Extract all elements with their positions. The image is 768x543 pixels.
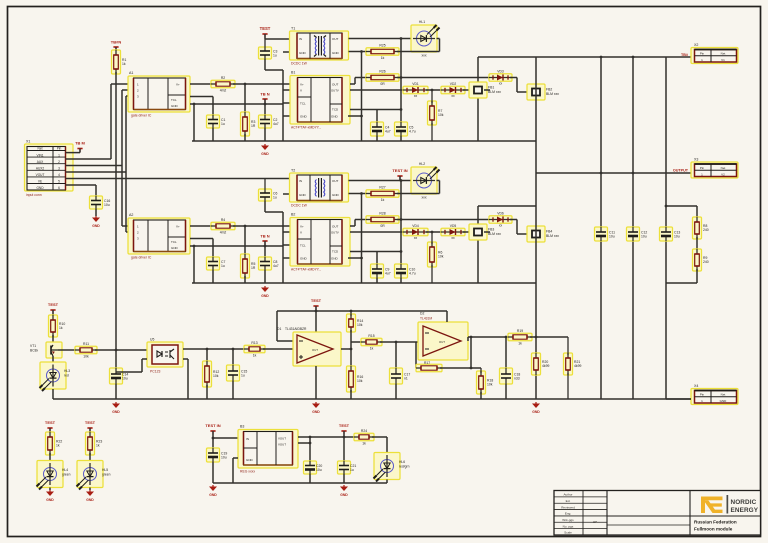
svg-text:TB#: TB# — [681, 53, 688, 57]
resistor R28 on OUT rail — [366, 212, 399, 228]
rail 206 ch2 — [478, 205, 536, 207]
wire C7 to rail — [212, 270, 214, 283]
svg-text:HL2: HL2 — [419, 162, 425, 166]
svg-text:Eng.: Eng. — [565, 512, 572, 516]
svg-text:OUT: OUT — [332, 83, 339, 87]
svg-text:1k: 1k — [122, 62, 126, 66]
svg-text:GND: GND — [332, 193, 340, 197]
junction x401 on OUT rail — [400, 76, 403, 79]
junction at R5 top — [244, 225, 247, 228]
svg-text:1R: 1R — [251, 266, 256, 270]
svg-text:Pin: Pin — [700, 393, 705, 397]
wire flag to rail — [343, 431, 345, 437]
capacitor C9 — [371, 264, 391, 278]
ground below bus at x316 — [312, 402, 320, 414]
svg-text:4m2: 4m2 — [220, 230, 227, 234]
resistor R14 vertical upper — [347, 314, 364, 332]
svg-text:R28: R28 — [379, 212, 385, 216]
svg-text:1R: 1R — [251, 124, 256, 128]
wire C21 drop — [343, 437, 345, 461]
svg-text:6: 6 — [58, 186, 60, 190]
resistor R21 vertical — [564, 353, 582, 375]
connector X1 input header — [25, 140, 74, 192]
svg-text:4k99: 4k99 — [542, 364, 549, 368]
svg-text:1k: 1k — [56, 444, 60, 448]
svg-text:OUT: OUT — [439, 340, 445, 344]
svg-text:GND: GND — [86, 498, 94, 502]
vertical bus x601 upper — [600, 57, 602, 227]
svg-text:VOUT: VOUT — [278, 443, 286, 447]
wire HL1 right corner — [437, 38, 440, 40]
svg-text:GND: GND — [92, 224, 100, 228]
svg-text:ACT4*TAF-xMDYY...: ACT4*TAF-xMDYY... — [291, 126, 321, 130]
svg-text:4.7u: 4.7u — [409, 272, 416, 276]
op-amp DA1 — [277, 327, 341, 366]
svg-text:VOUT: VOUT — [36, 173, 45, 177]
wire X1 pin3 rail — [66, 165, 123, 167]
wire C5 to rail — [400, 136, 402, 141]
wire A2 gnd drop to rail — [193, 246, 195, 283]
wire VD1-VD2 — [426, 89, 443, 91]
svg-text:Net: Net — [721, 393, 726, 397]
output rail y173 — [536, 172, 691, 174]
svg-text:HL3: HL3 — [64, 369, 70, 373]
svg-text:10u: 10u — [221, 456, 227, 460]
svg-text:green: green — [62, 473, 71, 477]
wire C18 to bus — [505, 384, 507, 399]
svg-text:red: red — [64, 374, 69, 378]
svg-text:VE: VE — [38, 179, 42, 183]
svg-text:V: V — [300, 231, 302, 235]
svg-text:TEST: TEST — [311, 298, 322, 303]
svg-text:TEST: TEST — [48, 302, 59, 307]
net flag TB N above C8 — [260, 234, 269, 245]
junction C21 — [343, 436, 346, 439]
svg-text:4k99: 4k99 — [574, 364, 581, 368]
resistor R20 on bus x536 — [532, 353, 550, 375]
svg-text:TCL: TCL — [171, 240, 177, 244]
capacitor C13 on bus x666 — [660, 227, 681, 241]
junction TCD x401 — [400, 108, 403, 111]
svg-text:GND: GND — [112, 410, 120, 414]
svg-text:1u: 1u — [221, 264, 225, 268]
svg-text:xxx: xxx — [421, 196, 426, 200]
svg-text:HL6: HL6 — [399, 460, 405, 464]
svg-text:GND: GND — [171, 104, 179, 108]
svg-text:1k: 1k — [381, 56, 385, 60]
diode VD5 — [441, 224, 465, 240]
wire R26 to VD3 rail — [397, 77, 491, 79]
svg-text:TB N: TB N — [260, 92, 269, 97]
wire U1 out to R2 — [190, 83, 213, 85]
svg-text:R17: R17 — [424, 361, 430, 365]
wire T1 out to LED HL1 — [349, 38, 412, 40]
svg-text:Ed.: Ed. — [566, 499, 571, 503]
svg-text:GND: GND — [36, 186, 44, 190]
wire U3 out to R4 — [190, 225, 213, 227]
svg-text:2: 2 — [58, 160, 60, 164]
svg-text:4u7: 4u7 — [273, 122, 279, 126]
svg-text:REG xxxx: REG xxxx — [240, 470, 255, 474]
wire rail to DA2 top — [446, 311, 448, 322]
ferrite bead FB2 — [527, 84, 559, 100]
svg-text:10u: 10u — [674, 235, 680, 239]
vertical rail x478 ch1 — [477, 57, 479, 141]
junction y104 drop — [193, 103, 196, 106]
wire flag to U6 in — [213, 437, 238, 439]
wire C18 drop — [505, 336, 508, 339]
wire R5 top — [244, 226, 246, 256]
svg-text:V+: V+ — [300, 225, 304, 229]
svg-text:GND: GND — [246, 458, 254, 462]
svg-text:VD4: VD4 — [412, 224, 419, 228]
ground at x344 — [340, 485, 348, 497]
wire R15 to DA2 in — [380, 341, 418, 343]
svg-text:240: 240 — [703, 260, 709, 264]
svg-text:xx: xx — [451, 236, 455, 240]
vertical bus x633 upper — [632, 57, 634, 227]
wire R19 to R21 — [530, 336, 568, 338]
wire opto out to R13 — [183, 348, 246, 350]
wire vertical x122 to IC1/IC2 — [121, 90, 123, 226]
junction x116 on feedback wire — [115, 349, 118, 352]
wire C19 to bus — [212, 462, 214, 483]
ground below C16 — [92, 216, 100, 228]
junction T1 gnd — [360, 50, 363, 53]
wire R12 drop — [206, 348, 209, 351]
wire flag to R1 — [115, 47, 117, 52]
IC U4 converter channel 2 — [290, 213, 350, 267]
resistor R17 feedback — [416, 364, 442, 372]
capacitor C11 on bus x601 — [595, 227, 616, 241]
wire U6 outputs — [298, 436, 310, 438]
wire C20 to bus — [309, 474, 311, 483]
ground bus y399 — [53, 398, 691, 400]
junction U6 out — [309, 436, 312, 439]
wire LED HL4 to ground — [49, 488, 51, 491]
svg-text:X4: X4 — [694, 384, 698, 388]
wire vertical x126 to IC1/IC2 — [125, 96, 127, 232]
svg-text:1u: 1u — [221, 122, 225, 126]
svg-text:VD5: VD5 — [450, 224, 457, 228]
wire flag to T1 in — [264, 34, 266, 39]
svg-text:TEST: TEST — [85, 420, 96, 425]
wire bus to X4 — [666, 398, 691, 400]
svg-text:GND: GND — [299, 193, 307, 197]
wire VD4-VD5 — [426, 231, 443, 233]
ferrite bead FB1 — [469, 82, 501, 98]
capacitor C17 — [390, 368, 411, 384]
wire x116 down to C14 — [115, 350, 117, 368]
svg-text:1u: 1u — [241, 374, 245, 378]
junction rail at x351 — [350, 310, 353, 313]
svg-text:R11: R11 — [83, 342, 89, 346]
wire opto pin2 jog — [142, 358, 147, 360]
diode VD2 — [441, 82, 465, 98]
resistor R24 — [354, 429, 374, 445]
wire vertical x111 to IC1 — [110, 84, 112, 159]
svg-text:10u: 10u — [104, 203, 110, 207]
resistor R3 — [241, 112, 256, 136]
wire R24 to HL6 — [372, 436, 387, 438]
vertical bus x601 lower — [600, 241, 602, 399]
svg-text:TB N: TB N — [260, 234, 269, 239]
junction y246 drop — [193, 245, 196, 248]
IC U6 regulator — [238, 425, 298, 469]
junction U6 in — [212, 437, 215, 440]
wire resistor to LED HL4 — [49, 453, 51, 461]
svg-text:10u: 10u — [609, 235, 615, 239]
wire DA2 out — [467, 337, 469, 341]
svg-text:V+: V+ — [176, 225, 180, 229]
wire opamp V- to ground bus — [315, 366, 317, 399]
svg-text:OUT: OUT — [332, 225, 339, 229]
svg-text:Fullmoon module: Fullmoon module — [694, 527, 733, 532]
svg-text:5: 5 — [58, 179, 60, 183]
capacitor C21 — [338, 461, 357, 474]
svg-text:T1: T1 — [291, 27, 295, 31]
svg-text:GND: GND — [300, 257, 308, 261]
svg-text:V: V — [300, 89, 302, 93]
wire C14 to bus — [115, 384, 117, 399]
resistor R15 — [361, 334, 382, 350]
resistor R13 — [244, 341, 265, 357]
svg-text:xxx: xxx — [421, 54, 426, 58]
svg-text:xx: xx — [414, 236, 418, 240]
wire LED HL5 to ground — [89, 488, 91, 491]
IC U2 converter channel 1 — [290, 71, 350, 125]
wire VD3 to FB2 — [510, 77, 517, 79]
wire R28 to VD6 rail — [397, 219, 491, 221]
svg-text:Author: Author — [563, 493, 572, 497]
capacitor C2 — [259, 115, 279, 128]
wire R3 bottom to rail — [244, 134, 246, 141]
svg-text:VD1: VD1 — [412, 82, 419, 86]
svg-text:gate driver IC: gate driver IC — [131, 114, 152, 118]
svg-text:VOUT: VOUT — [278, 437, 286, 441]
LED HL6 — [374, 453, 401, 482]
svg-text:OUTV: OUTV — [331, 89, 339, 93]
svg-text:xx: xx — [414, 94, 418, 98]
net flag TEST above R10 — [48, 302, 59, 314]
svg-text:10u: 10u — [641, 235, 647, 239]
wire R10 to VT1 — [52, 335, 54, 345]
svg-text:TEST: TEST — [45, 420, 56, 425]
svg-text:TCL: TCL — [171, 98, 177, 102]
svg-text:VIN1: VIN1 — [36, 153, 43, 157]
svg-text:10k: 10k — [438, 113, 444, 117]
capacitor C18 — [500, 368, 521, 384]
capacitor C1 — [207, 115, 226, 128]
wire C21 to bus — [343, 474, 345, 483]
resistor R27 LED series — [366, 186, 399, 202]
svg-text:Net: Net — [721, 166, 726, 170]
wire flag to rail311 — [315, 306, 317, 311]
capacitor C7 — [207, 257, 226, 270]
IC U1 input driver channel 1 — [128, 71, 190, 112]
wire U4 OUTV to diodes — [350, 231, 405, 233]
LED HL5 — [77, 461, 104, 490]
svg-text:R27: R27 — [379, 186, 385, 190]
ground flag below rail ch2 — [261, 286, 269, 298]
vertical bus x666 lower — [665, 241, 667, 399]
LED HL1 — [411, 20, 440, 58]
svg-text:10k: 10k — [438, 255, 444, 259]
wire C1 to rail — [212, 128, 214, 141]
svg-text:R2: R2 — [221, 76, 225, 80]
wire C3 bottom return — [264, 59, 266, 70]
svg-text:R19: R19 — [517, 329, 523, 333]
ferrite bead FB3 — [469, 224, 501, 240]
net flag TEST above opamp DA1 — [311, 298, 322, 310]
svg-text:R26: R26 — [379, 70, 385, 74]
transformer T1 — [290, 27, 349, 61]
wire node to R15 — [351, 341, 363, 343]
svg-text:4u7: 4u7 — [385, 272, 391, 276]
svg-text:Scale: Scale — [564, 531, 572, 535]
wire branch to R8/R9 — [666, 205, 697, 207]
svg-text:Russian Federation: Russian Federation — [694, 520, 737, 525]
wire VD5 to FB3 — [463, 231, 478, 233]
svg-text:GND: GND — [332, 51, 340, 55]
wire opto pin3 down — [183, 358, 188, 360]
wire U4 GND to T2 return — [348, 257, 362, 259]
svg-text:TB#N: TB#N — [111, 40, 122, 45]
svg-text:R25: R25 — [379, 44, 385, 48]
net flag TEST branch HL5 — [85, 420, 96, 432]
svg-text:GND: GND — [331, 115, 339, 119]
vertical feed x401 ch1 — [400, 39, 402, 123]
LED HL4 — [37, 461, 64, 490]
svg-text:HL5: HL5 — [102, 468, 108, 472]
svg-text:X1: X1 — [26, 140, 30, 144]
wire DA2 feedback down — [415, 342, 417, 368]
resistor R2 — [211, 76, 235, 92]
svg-text:1k: 1k — [518, 341, 522, 345]
capacitor C5 — [395, 122, 416, 136]
wire R8-R9 — [696, 237, 698, 251]
svg-text:green: green — [102, 473, 111, 477]
svg-text:BLM xxx: BLM xxx — [546, 234, 559, 238]
svg-text:xx: xx — [451, 94, 455, 98]
svg-text:GND: GND — [340, 493, 348, 497]
svg-text:0R: 0R — [380, 82, 385, 86]
junction R7 top — [431, 89, 434, 92]
capacitor C12 on bus x633 — [627, 227, 648, 241]
svg-text:GND: GND — [46, 498, 54, 502]
svg-text:VD6: VD6 — [497, 212, 504, 216]
svg-text:GND: GND — [312, 410, 320, 414]
wire U2 GND to T1 return — [348, 115, 362, 117]
wire flag to C2 — [264, 99, 266, 115]
svg-text:No. pgs: No. pgs — [563, 524, 574, 528]
svg-text:GND: GND — [261, 294, 269, 298]
vertical rail x478 ch2 — [477, 206, 479, 283]
svg-text:Pin: Pin — [57, 147, 62, 151]
wire T1 gnd to R25 — [349, 51, 369, 53]
op-amp DA2 — [418, 312, 468, 361]
wire out rail to R24 — [310, 436, 356, 438]
svg-text:4: 4 — [58, 173, 60, 177]
wire bead FB3 right stub — [484, 231, 490, 233]
wire flag to resistor HL4 — [49, 428, 51, 434]
connector X4 output bottom — [691, 384, 738, 405]
resistor R4 — [211, 218, 235, 234]
capacitor C16 — [90, 196, 111, 209]
svg-text:1k: 1k — [362, 441, 366, 445]
svg-text:PC123: PC123 — [150, 370, 160, 374]
wire R16 to bus — [350, 390, 352, 399]
svg-text:GND: GND — [261, 152, 269, 156]
ground below bus at x536 — [532, 402, 540, 414]
svg-text:1u: 1u — [273, 196, 277, 200]
net flag TB N above R1 — [111, 40, 122, 51]
diode VD1 — [403, 82, 428, 98]
svg-text:10k: 10k — [213, 374, 219, 378]
wire stubs U4 left pins — [283, 231, 290, 233]
optocoupler U5 — [147, 338, 183, 368]
capacitor C15 — [227, 365, 248, 381]
capacitor C6 on input rail — [259, 189, 278, 201]
resistor R9 — [693, 249, 709, 271]
wire rail to +in — [276, 311, 278, 341]
svg-text:4u7: 4u7 — [273, 264, 279, 268]
net flag TB M at X1 pin 1 — [75, 141, 85, 153]
svg-text:GND: GND — [532, 410, 540, 414]
junction R6 top — [431, 231, 434, 234]
wire R9 return to bus — [696, 269, 698, 283]
wire U2 OUT up corner — [350, 83, 355, 85]
svg-text:10k: 10k — [83, 354, 89, 358]
svg-text:OUT: OUT — [332, 37, 339, 41]
wire R17 to out node — [440, 367, 481, 369]
wire opamp V+ from rail — [315, 311, 317, 332]
capacitor C3 — [259, 47, 278, 59]
svg-text:R24: R24 — [361, 429, 367, 433]
svg-text:TCD: TCD — [332, 250, 339, 254]
wire C17 to bus — [395, 384, 397, 399]
svg-text:AUX2: AUX2 — [36, 166, 45, 170]
ferrite bead FB4 — [527, 226, 559, 242]
svg-text:ENERGY: ENERGY — [731, 507, 759, 514]
wire flag stub — [399, 176, 401, 181]
svg-text:xx: xx — [499, 82, 503, 86]
ground below HL4 — [46, 490, 54, 502]
wire flag to R10 — [52, 310, 54, 317]
net flag TEST above C3 — [260, 26, 271, 38]
wire flag to C8 — [264, 241, 266, 257]
vertical T2 gnd return x361 — [361, 194, 363, 284]
svg-text:BLM xxx: BLM xxx — [546, 92, 559, 96]
svg-text:3: 3 — [58, 166, 60, 170]
IC U3 input driver channel 2 — [128, 213, 190, 254]
svg-text:1k: 1k — [253, 353, 257, 357]
wire C2 to rail — [264, 128, 266, 141]
bottom module ground bus — [213, 482, 387, 484]
svg-text:1k: 1k — [370, 346, 374, 350]
wire X1 pin1 to flag — [66, 152, 81, 154]
resistor R18 vertical — [477, 371, 494, 394]
svg-text:VD3: VD3 — [497, 70, 504, 74]
ground below HL5 — [86, 490, 94, 502]
resistor R10 — [49, 315, 66, 337]
svg-text:Pin: Pin — [700, 52, 705, 56]
svg-text:HL4: HL4 — [62, 468, 68, 472]
svg-text:TCD: TCD — [332, 108, 339, 112]
wire R12 to bus — [206, 385, 208, 399]
svg-text:TEST IN: TEST IN — [205, 423, 220, 428]
svg-text:Net: Net — [38, 147, 43, 151]
